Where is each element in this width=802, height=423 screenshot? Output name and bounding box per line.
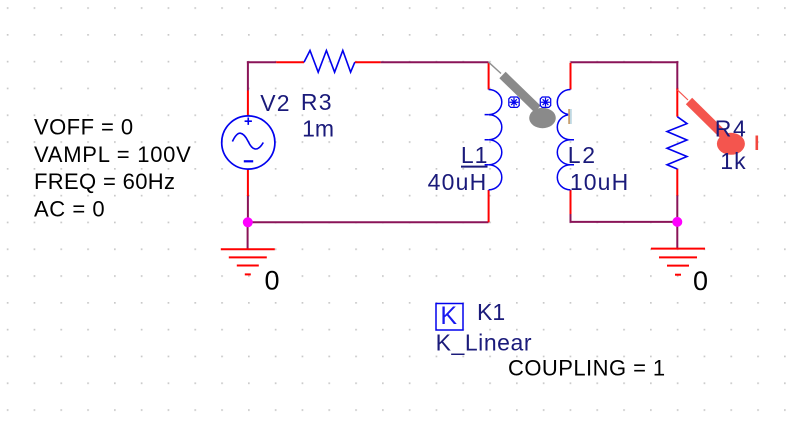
svg-text:VAMPL = 100V: VAMPL = 100V <box>34 142 192 167</box>
svg-text:FREQ = 60Hz: FREQ = 60Hz <box>34 169 175 194</box>
svg-text:K_Linear: K_Linear <box>436 329 532 355</box>
svg-text:0: 0 <box>265 265 280 295</box>
svg-text:V2: V2 <box>260 90 290 116</box>
svg-text:K: K <box>440 302 457 330</box>
svg-text:0: 0 <box>693 266 708 296</box>
svg-text:1k: 1k <box>720 148 746 174</box>
svg-text:K1: K1 <box>477 299 505 325</box>
svg-text:40uH: 40uH <box>428 169 488 195</box>
svg-text:L2: L2 <box>568 142 597 168</box>
svg-text:COUPLING = 1: COUPLING = 1 <box>508 356 666 381</box>
svg-text:VOFF = 0: VOFF = 0 <box>34 115 134 140</box>
svg-text:R4: R4 <box>715 115 748 141</box>
svg-text:10uH: 10uH <box>570 169 629 195</box>
svg-text:L1: L1 <box>461 142 489 168</box>
svg-text:R3: R3 <box>301 89 333 115</box>
svg-text:1m: 1m <box>302 115 334 141</box>
svg-text:AC = 0: AC = 0 <box>34 196 105 221</box>
